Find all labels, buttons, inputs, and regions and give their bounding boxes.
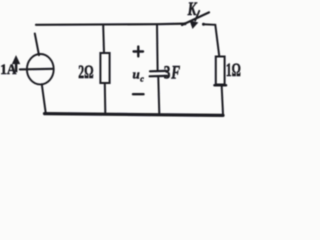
label minus sign [133,93,144,95]
wire left (bottom segment) [42,84,46,113]
svg-text:c: c [140,74,144,83]
svg-text:K: K [187,0,198,19]
wire right-top [203,24,219,56]
svg-text:1Ω: 1Ω [226,60,241,80]
wire top [36,24,185,25]
svg-text:1A: 1A [0,61,17,78]
wire left (top segment) [35,34,39,56]
wire right-bottom [222,87,223,115]
svg-text:2Ω: 2Ω [78,62,93,82]
label plus sign [134,47,143,57]
switch K arrow [195,11,199,21]
current direction arrow (up) [12,56,19,72]
wire of 2ohm branch (bottom) [104,84,107,114]
current source Is (circle with bar) [27,54,54,84]
capacitor C plates [150,70,166,73]
switch contact dots [184,22,187,25]
svg-text:u: u [133,67,140,82]
wire of capacitor branch (bottom) [158,77,159,114]
current source bar [20,68,53,71]
wire bottom [45,114,224,116]
wire of capacitor branch (top) [156,25,159,71]
wire of 2ohm branch (top) [102,25,105,53]
svg-text:3: 3 [164,64,171,84]
svg-text:F: F [170,64,180,84]
switch K blade [182,12,209,25]
resistor R1 body [100,53,109,83]
resistor R2 body [216,57,225,85]
